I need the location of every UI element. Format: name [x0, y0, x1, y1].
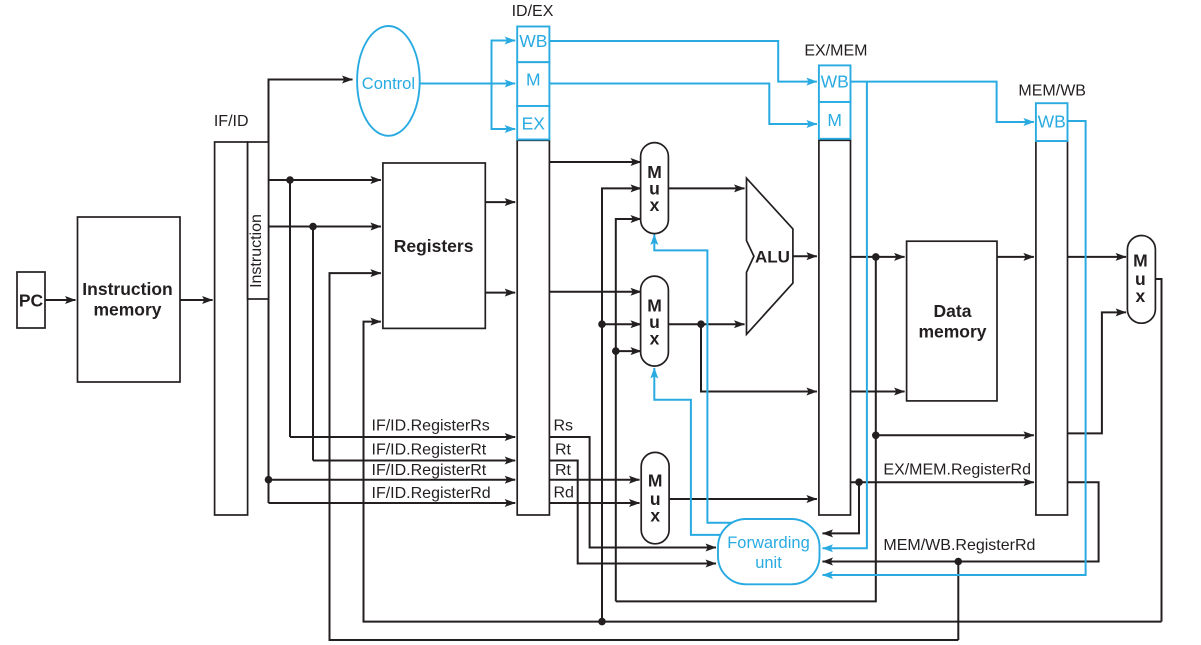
svg-text:x: x [650, 195, 660, 215]
svg-text:WB: WB [821, 72, 849, 92]
svg-text:Rd: Rd [554, 485, 574, 502]
svg-text:memory: memory [918, 322, 986, 342]
svg-text:EX/MEM: EX/MEM [804, 43, 867, 60]
svg-text:ID/EX: ID/EX [512, 3, 554, 20]
svg-text:x: x [650, 329, 660, 349]
svg-text:memory: memory [93, 300, 161, 320]
svg-text:M: M [827, 110, 842, 130]
svg-text:unit: unit [755, 554, 782, 572]
svg-text:IF/ID.RegisterRd: IF/ID.RegisterRd [372, 485, 491, 502]
svg-text:Rt: Rt [555, 442, 572, 459]
svg-text:Instruction: Instruction [248, 214, 265, 288]
svg-text:ALU: ALU [755, 247, 790, 266]
svg-text:Control: Control [362, 75, 415, 93]
svg-text:Rt: Rt [555, 462, 572, 479]
svg-text:M: M [526, 70, 541, 90]
svg-text:x: x [650, 506, 660, 526]
svg-text:IF/ID.RegisterRt: IF/ID.RegisterRt [372, 442, 487, 459]
svg-text:Data: Data [934, 301, 972, 321]
svg-text:EX/MEM.RegisterRd: EX/MEM.RegisterRd [883, 462, 1031, 479]
svg-text:WB: WB [1038, 111, 1066, 131]
svg-text:M: M [1133, 251, 1148, 271]
svg-text:MEM/WB.RegisterRd: MEM/WB.RegisterRd [883, 537, 1035, 554]
svg-text:IF/ID.RegisterRs: IF/ID.RegisterRs [372, 418, 490, 435]
svg-text:EX: EX [522, 114, 546, 134]
svg-text:PC: PC [19, 291, 44, 311]
svg-text:x: x [1136, 286, 1146, 306]
svg-text:IF/ID.RegisterRt: IF/ID.RegisterRt [372, 462, 487, 479]
svg-text:IF/ID: IF/ID [214, 113, 249, 130]
svg-text:WB: WB [519, 31, 547, 51]
svg-text:Rs: Rs [554, 418, 574, 435]
svg-text:Registers: Registers [394, 236, 474, 256]
svg-text:MEM/WB: MEM/WB [1018, 83, 1086, 100]
svg-text:M: M [648, 471, 663, 491]
svg-text:Forwarding: Forwarding [727, 534, 810, 552]
svg-text:Instruction: Instruction [82, 279, 172, 299]
